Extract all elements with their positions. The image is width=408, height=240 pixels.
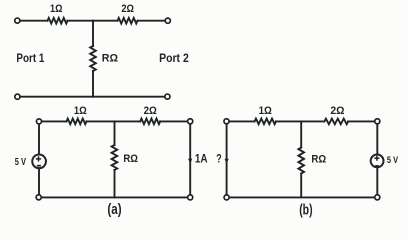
svg-text:Port 1: Port 1 [16,51,44,65]
svg-text:?: ? [216,153,221,166]
wire: circuit (a) left branch upper (to 5V source) [38,124,40,155]
svg-text:(a): (a) [107,202,121,218]
voltage source 5V (circuit b) [371,155,384,168]
svg-text:RΩ: RΩ [123,153,138,165]
svg-text:1A: 1A [195,152,208,165]
svg-text:2Ω: 2Ω [121,3,134,15]
svg-text:RΩ: RΩ [102,53,118,65]
svg-text:2Ω: 2Ω [144,105,157,117]
node: circuit (b) bottom-right corner [375,195,380,200]
wire: circuit (b) top rail left [229,120,255,122]
wire: circuit (b) middle branch bottom [300,174,302,198]
node: Port 2 upper terminal [165,18,170,23]
svg-text:RΩ: RΩ [311,153,326,165]
node: Port 1 lower terminal [15,94,20,99]
current arrow ? (downward) [225,159,229,164]
wire: top-left lead of two-port [20,20,48,22]
node: circuit (a) bottom-left corner [36,195,41,200]
svg-text:1Ω: 1Ω [259,105,272,117]
wire: circuit (b) right branch lower [376,167,378,195]
svg-text:5 V: 5 V [387,155,399,166]
node: circuit (a) bottom-right corner [188,195,193,200]
wire: circuit (a) top rail right [160,120,188,122]
wire: circuit (a) top rail middle [87,120,141,122]
node: circuit (a) top-right corner [188,119,193,124]
wire: circuit (b) top rail right [348,120,375,122]
resistor 1Ω (circuit a) [67,119,87,125]
wire: bottom rail of two-port [20,96,165,98]
resistor 2Ω (circuit b) [324,119,348,125]
wire: circuit (a) bottom rail [39,196,190,198]
svg-text:5 V: 5 V [15,157,27,168]
resistor 1Ω (circuit b) [255,119,276,125]
svg-text:2Ω: 2Ω [330,105,344,117]
wire: circuit (b) right branch upper [376,124,378,155]
resistor RΩ (top network, shunt) [90,46,96,71]
node: Port 2 lower terminal [165,94,170,99]
wire: circuit (a) right branch with 1A current [189,124,191,195]
wire: circuit (b) top rail middle [276,120,324,122]
resistor RΩ (circuit b, shunt) [298,148,304,174]
wire: circuit (b) middle branch top [300,121,302,147]
wire: circuit (a) left branch lower [38,168,40,195]
svg-text:1Ω: 1Ω [74,105,87,117]
node: circuit (b) top-left corner [224,119,229,124]
current arrow 1A (downward) [188,159,192,164]
node: circuit (b) top-right corner [375,119,380,124]
resistor 2Ω (top network, series right) [118,18,138,24]
wire: top-right lead of two-port [138,20,166,22]
wire: vertical from top node down to RΩ [92,21,94,46]
resistor 2Ω (circuit a) [140,119,160,125]
node: circuit (a) top-left corner [36,119,41,124]
svg-text:Port 2: Port 2 [159,51,189,65]
resistor 1Ω (top network, series left) [48,18,68,24]
voltage source 5V (circuit a) [32,155,46,169]
node: Port 1 upper terminal [15,18,20,23]
wire: RΩ bottom to bottom rail [92,71,94,97]
wire: circuit (b) left branch with unknown current [226,124,228,195]
wire: circuit (a) top rail [41,120,66,122]
wire: circuit (a) middle branch bottom [114,170,116,197]
wire: between 1Ω and 2Ω through node at top [68,20,118,22]
resistor RΩ (circuit a, shunt) [112,145,118,170]
wire: circuit (a) middle branch top [114,121,116,145]
node: circuit (b) bottom-left corner [224,195,229,200]
svg-text:(b): (b) [299,203,313,219]
wire: circuit (b) bottom rail [227,196,378,198]
svg-text:1Ω: 1Ω [50,3,63,15]
